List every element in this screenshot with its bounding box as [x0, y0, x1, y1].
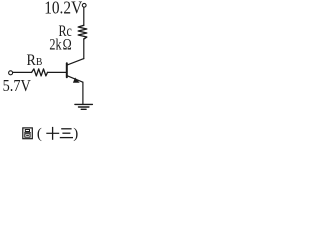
svg-text:10.2V: 10.2V	[44, 0, 82, 18]
svg-text:5.7V: 5.7V	[3, 76, 31, 95]
svg-text:): )	[73, 126, 78, 142]
svg-text:2k Ω: 2k Ω	[49, 36, 71, 53]
svg-text:(: (	[37, 126, 42, 142]
svg-text:RB: RB	[27, 52, 43, 69]
